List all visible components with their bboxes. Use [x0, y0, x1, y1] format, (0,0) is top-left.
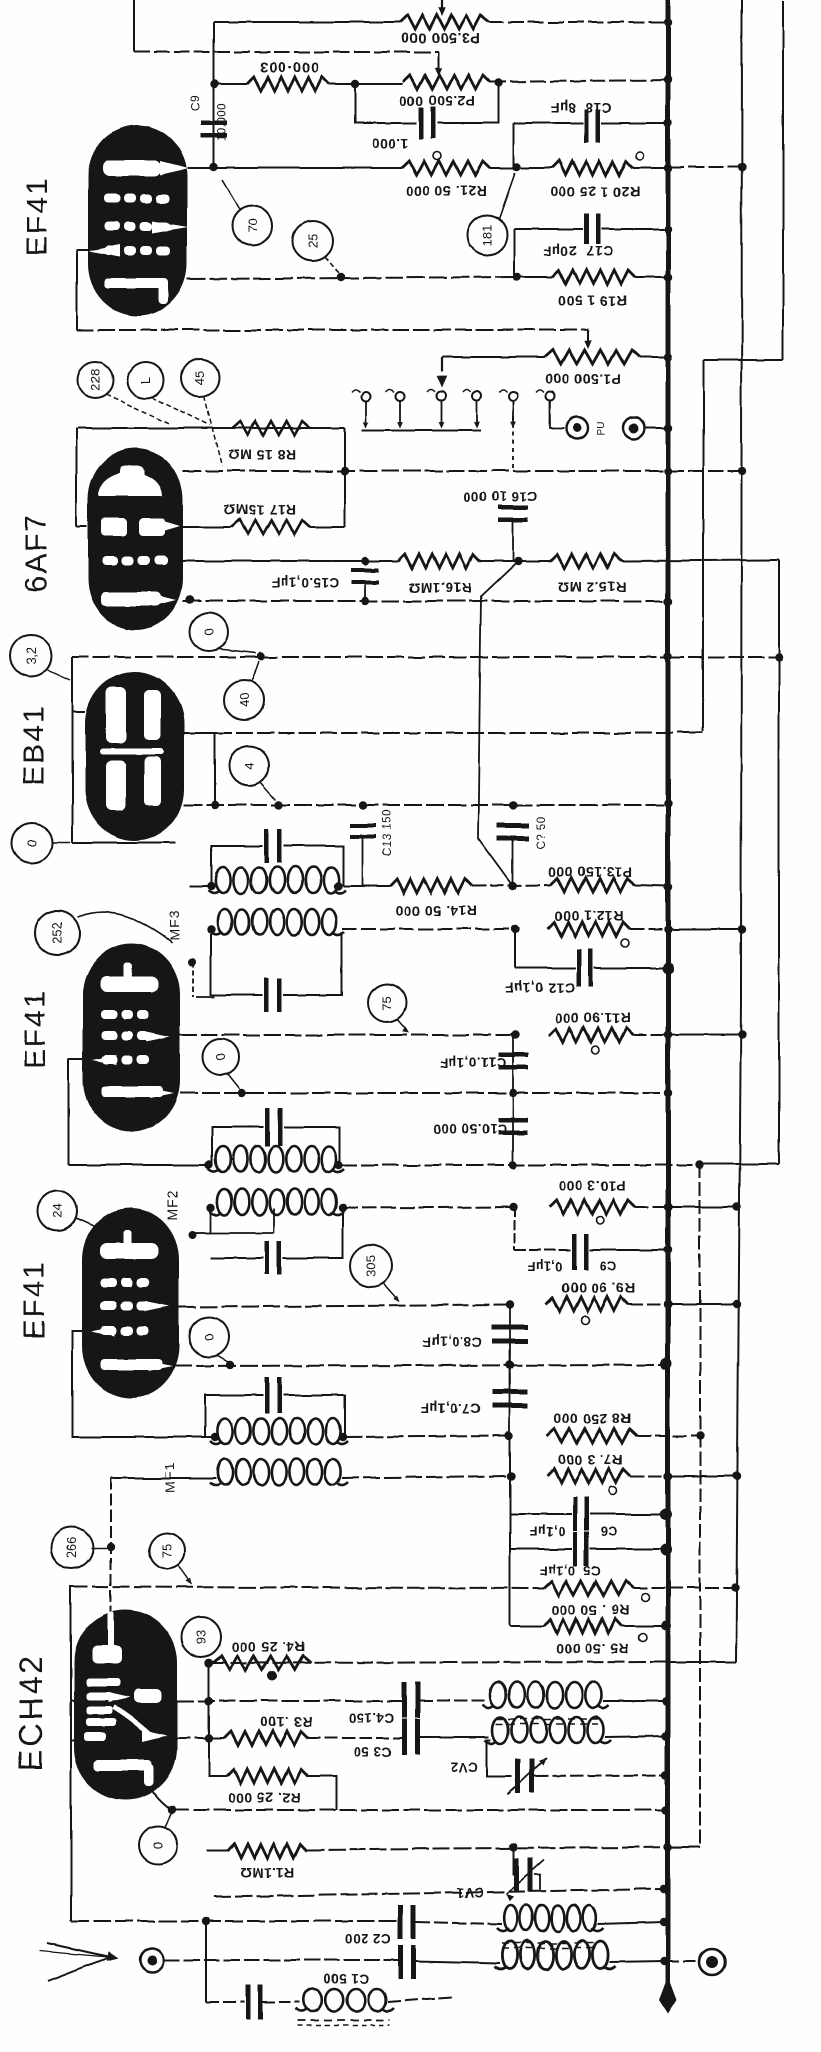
vacuum tube V4 EF41 envelope — [83, 943, 180, 1132]
leader 0a — [218, 649, 256, 653]
wire trap tail — [388, 1997, 452, 2002]
resistor R1 1M — [227, 1844, 307, 1858]
resistor R3 100 — [224, 1731, 308, 1745]
wire V5 g3 left drop — [72, 1331, 215, 1437]
callout circle 25 — [293, 221, 333, 261]
tube V6 cathode — [94, 1760, 152, 1771]
node bus y357 — [664, 353, 672, 361]
svg-text:0,1µF: 0,1µF — [529, 1524, 565, 1539]
wire V1 cathode line y277 — [187, 277, 517, 279]
callout circle 0a — [190, 613, 228, 651]
svg-text:C18 8µF: C18 8µF — [550, 100, 612, 116]
svg-text:CV2: CV2 — [450, 1759, 478, 1774]
svg-text:C5 0,1µF: C5 0,1µF — [539, 1563, 600, 1578]
wire rail x699 vertical — [699, 1164, 701, 1847]
svg-text:R6 . 50 000: R6 . 50 000 — [551, 1602, 629, 1618]
wire R8b to rail — [637, 1435, 700, 1437]
node x365 y561 — [361, 557, 369, 565]
node bus y1736 — [662, 1732, 670, 1740]
svg-text:EF41: EF41 — [21, 176, 54, 256]
leader 0d — [216, 1355, 228, 1362]
wire C18 bracket — [513, 123, 515, 167]
tube V2 target disc — [98, 472, 162, 496]
svg-text:R9. 90 000: R9. 90 000 — [561, 1280, 635, 1296]
leader 252 — [77, 912, 172, 943]
tube V1 cathode — [104, 278, 166, 288]
wire C3 to coil — [420, 1736, 489, 1738]
svg-text:305: 305 — [364, 1255, 379, 1277]
node x513 y1165 — [509, 1161, 517, 1169]
svg-text:R19 1 500: R19 1 500 — [557, 293, 626, 309]
wire R14-R13 — [472, 885, 550, 886]
callout circle 0d — [189, 1317, 229, 1357]
wire C0 to coil — [263, 2001, 300, 2003]
node x517 y167 — [513, 163, 521, 171]
potentiometer P3 500000 — [400, 15, 488, 29]
node x742 y167 — [738, 163, 746, 171]
node x513 y886 — [509, 882, 517, 890]
svg-text:266: 266 — [65, 1537, 80, 1559]
tube V6 grid top box — [92, 1645, 122, 1663]
node x365 y601 — [361, 597, 369, 605]
coil ANT primary — [504, 1905, 517, 1931]
svg-text:25: 25 — [306, 234, 321, 248]
wire y1207 to rail — [668, 1206, 737, 1208]
wire R19 stubs — [517, 276, 552, 278]
leader 70 — [222, 180, 240, 210]
svg-text:0: 0 — [25, 839, 40, 846]
svg-text:R1.1MΩ: R1.1MΩ — [239, 1865, 294, 1881]
wire grid drop V4 — [192, 963, 194, 997]
transformer MF1 primary box — [205, 1395, 263, 1437]
svg-text:C8.0,1µF: C8.0,1µF — [422, 1334, 481, 1349]
callout circle 0c — [203, 1039, 239, 1075]
resistor R22 300000 — [247, 77, 329, 91]
capacitor C14 50 — [497, 823, 529, 828]
callout circle 70 — [232, 206, 272, 246]
callout circle 41 — [128, 362, 164, 398]
wire detector drop — [478, 561, 518, 883]
callout circle 0b — [12, 823, 52, 863]
coil OSC primary — [490, 1682, 506, 1708]
wire C1 to coil — [416, 1961, 500, 1963]
wire RC rail x511 — [509, 1436, 511, 1626]
node bus y229 — [664, 225, 672, 233]
svg-text:R17 15MΩ: R17 15MΩ — [224, 502, 296, 518]
node bus y1810 — [662, 1806, 670, 1814]
wire osc grid drop x111 — [110, 1478, 112, 1648]
wire line y1922 — [71, 1920, 398, 1922]
svg-text:C15.0,1µF: C15.0,1µF — [271, 575, 338, 590]
capacitor MF1 primary tune — [265, 1377, 270, 1413]
wire ant sec to bus — [609, 1961, 664, 1962]
wire CV2 arrow — [508, 1758, 546, 1794]
wire C17 bracket — [513, 229, 515, 277]
node x209 y1701 — [205, 1697, 213, 1705]
tube V1 grid dashes row1 — [104, 194, 120, 203]
svg-text:C17 20µF: C17 20µF — [543, 243, 613, 259]
resistor R4 25000 — [213, 1656, 311, 1670]
leader 41 — [152, 397, 210, 425]
wire MF3 pri right — [343, 885, 390, 887]
resistor R9 90000 — [546, 1297, 628, 1311]
wire R16-R15 — [480, 560, 550, 562]
wire V5 anode line y1306 — [179, 1305, 510, 1307]
resistor R2 25000 — [227, 1769, 308, 1783]
svg-text:C4.150: C4.150 — [348, 1710, 394, 1725]
node x518 y561 — [514, 557, 522, 565]
wire main HT bus vertical — [666, 0, 671, 1998]
svg-text:EF41: EF41 — [19, 989, 52, 1069]
resistor R10 3000 — [549, 1200, 635, 1214]
node bus y1250 — [664, 1246, 672, 1254]
node x513 y805 — [509, 801, 517, 809]
jack earth — [699, 1949, 725, 1975]
potentiometer P2 500000 — [403, 75, 490, 89]
wire trap core — [298, 2019, 390, 2021]
node x515 y1035 — [511, 1031, 519, 1039]
svg-text:R16.1MΩ: R16.1MΩ — [408, 580, 472, 596]
coil MF3 secondary — [217, 909, 232, 935]
svg-text:R14. 50 000: R14. 50 000 — [395, 903, 477, 919]
svg-text:MF2: MF2 — [164, 1190, 180, 1221]
wire line y330 dashed — [77, 329, 588, 331]
svg-text:C? 50: C? 50 — [536, 816, 548, 849]
svg-text:0: 0 — [214, 1053, 229, 1060]
leader 0e — [165, 1814, 171, 1827]
resistor R17 15M — [232, 520, 310, 534]
resistor R12 1000 — [548, 922, 630, 936]
wire bus to output jack — [668, 1960, 699, 1962]
node bus y1093 — [664, 1089, 672, 1097]
capacitor C1 500 — [398, 1945, 403, 1979]
resistor R5 50000 — [544, 1619, 621, 1633]
svg-text:C9: C9 — [599, 1259, 616, 1274]
capacitor MF2 primary tune — [266, 1108, 271, 1146]
wire y929 to rail — [668, 928, 742, 930]
wire V1 g3 left drop — [77, 250, 90, 330]
node x343 y1208 — [339, 1204, 347, 1212]
resistor R13 150000 — [550, 878, 635, 892]
wire MF1 sec left link — [111, 1477, 216, 1479]
wire R22-P2 link — [329, 83, 403, 85]
callout circle 24 — [37, 1191, 77, 1231]
node x279 y805 — [275, 801, 283, 809]
node x510 y1305 — [506, 1301, 514, 1309]
resistor R21 50000 — [402, 161, 490, 175]
tube V5 dashes row1 — [101, 1278, 117, 1287]
wire R22 left stub — [215, 83, 247, 85]
capacitor C4 150 — [402, 1682, 407, 1718]
wire line y1847 — [207, 1850, 227, 1852]
wire jog y360 — [703, 359, 783, 361]
node bus y1847 — [664, 1843, 672, 1851]
wire P1 right — [640, 356, 668, 358]
node bus y428 — [664, 424, 672, 432]
capacitor C11 0.1uF — [512, 1035, 514, 1093]
tube V3 diode plate 2a — [106, 760, 126, 810]
tube V6 anode slot — [134, 1689, 162, 1703]
wire right rail x783 vertical — [782, 0, 784, 360]
svg-text:93: 93 — [194, 1630, 209, 1644]
node x511 y1476 — [507, 1472, 515, 1480]
tube V3 diode plate 2b — [144, 756, 161, 806]
wire R13 to bus — [635, 885, 668, 886]
wire V4 anode line y1035 — [180, 1034, 515, 1036]
svg-text:R15.2 MΩ: R15.2 MΩ — [558, 579, 626, 595]
node x343 y1437 — [339, 1433, 347, 1441]
svg-text:C16 10 000: C16 10 000 — [463, 489, 537, 504]
svg-text:228: 228 — [88, 369, 103, 391]
node x513 y1207 — [509, 1203, 517, 1211]
callout circle 0e — [139, 1826, 177, 1864]
node bus y1207 — [664, 1203, 672, 1211]
svg-text:P1.500 000: P1.500 000 — [545, 371, 622, 387]
svg-text:P13.150 000: P13.150 000 — [548, 864, 633, 880]
coil MF2 secondary — [217, 1189, 232, 1215]
resistor R14 50000 — [390, 879, 472, 893]
coil MF1 primary — [217, 1418, 232, 1444]
capacitor MF2 sec tune — [265, 1241, 270, 1275]
wire V2 grid line y471 — [183, 470, 668, 472]
wire line y1165 left — [69, 1164, 209, 1166]
tube V1 anode slot — [103, 160, 161, 176]
callout circle 93 — [181, 1617, 221, 1657]
wire R7 to bus — [630, 1475, 668, 1477]
svg-text:C3 50: C3 50 — [353, 1744, 391, 1759]
tube V4 anode slot — [100, 976, 158, 992]
label small o R21 — [433, 152, 441, 160]
node bus y168 — [664, 164, 672, 172]
svg-text:R12.1 000: R12.1 000 — [554, 908, 623, 924]
wire R12 bracket — [514, 929, 516, 968]
node bus y1476 — [664, 1472, 672, 1480]
node x513 y1847 — [509, 1843, 517, 1851]
node x742 y929 — [738, 925, 746, 933]
svg-text:C1 500: C1 500 — [323, 1971, 369, 1986]
wire top-left drop x134 — [133, 0, 135, 52]
wire P3 wiper up — [441, 0, 443, 13]
node x355 y84 — [351, 80, 359, 88]
wire ECH42 box left — [70, 1586, 72, 1921]
vacuum tube V5 EF41 envelope — [82, 1208, 179, 1398]
node bus y1304 — [664, 1300, 672, 1308]
vacuum tube V2 6AF7 envelope — [88, 448, 183, 630]
node x735 y1588 — [731, 1584, 739, 1592]
node x215 y84 — [211, 80, 219, 88]
wire C2 to coil — [416, 1922, 502, 1924]
leader 25 — [325, 257, 339, 273]
capacitor C10 50000 — [512, 1093, 514, 1165]
svg-text:181: 181 — [480, 224, 495, 246]
leader 228 — [106, 394, 170, 424]
wire MF2 grid line y1208 — [343, 1207, 513, 1208]
node bus y80 — [664, 76, 672, 84]
svg-text:000·003: 000·003 — [259, 58, 320, 74]
wire grid box right x345 — [344, 428, 346, 527]
resistor R16 1M — [398, 554, 480, 568]
tube V2 cathode — [101, 592, 161, 606]
wire R2 to y1810 — [308, 1776, 337, 1810]
node x513 y1093 — [509, 1089, 517, 1097]
tube V4 dashes row1 — [101, 1010, 117, 1019]
node x700 y1165 — [696, 1161, 704, 1169]
wire osc core — [496, 1718, 598, 1720]
tube V6 diag — [113, 1707, 150, 1735]
wire V3 lead y733 — [184, 732, 215, 734]
svg-text:R2. 25 000: R2. 25 000 — [227, 1790, 301, 1806]
wire MF2 sec box right — [283, 1208, 343, 1258]
resistor R15 2M — [550, 554, 622, 568]
callout circle 252 — [35, 911, 79, 955]
svg-text:R7. 3 000: R7. 3 000 — [557, 1452, 622, 1468]
tube V1 grid dashes row3 — [104, 246, 120, 255]
node x339 y1165 — [335, 1161, 343, 1169]
label small o R20 — [636, 152, 644, 160]
svg-text:75: 75 — [160, 1544, 175, 1558]
wire line y1165 right — [340, 1164, 700, 1166]
antenna symbol — [48, 1943, 110, 1957]
vacuum tube V1 EF41 envelope — [88, 125, 187, 316]
leader 40 — [252, 661, 259, 681]
wire bus bottom arrow — [659, 1976, 677, 2014]
tube V3 diode plate 1a — [106, 687, 126, 743]
callout circle 4 — [229, 746, 269, 786]
callout circle 228 — [77, 362, 113, 398]
svg-text:C2 200: C2 200 — [345, 1931, 391, 1946]
wire line y2002 — [206, 2001, 244, 2003]
wire V6 cathode to y1810 — [152, 1790, 172, 1810]
node x172 y1810 — [168, 1806, 176, 1814]
svg-text:ECH42: ECH42 — [13, 1653, 49, 1771]
wire R21-R20 link — [490, 167, 517, 169]
capacitor C8 0.1uF — [509, 1305, 511, 1365]
node x211 y928 — [207, 926, 215, 934]
node bus y1961 — [660, 1957, 668, 1965]
svg-text:C12 0,1µF: C12 0,1µF — [505, 980, 575, 996]
wire line y52 — [134, 51, 438, 53]
tube V5 cathode — [101, 1359, 163, 1370]
svg-text:R21. 50 000: R21. 50 000 — [405, 183, 487, 199]
resistor R8b 250000 — [547, 1429, 637, 1443]
svg-text:C10.50 000: C10.50 000 — [433, 1121, 507, 1136]
wire CV1 to coil — [534, 1875, 540, 1890]
tube V4 dashes row3 — [101, 1055, 117, 1064]
callout circle 181 — [467, 215, 507, 255]
jack PU right — [623, 417, 645, 439]
capacitor C9 on grid drop — [213, 84, 215, 167]
wire line y1588 — [71, 1587, 544, 1588]
capacitor C7 0.1uF — [509, 1365, 511, 1437]
leader 181 — [499, 173, 515, 219]
node x338 y886 — [334, 882, 342, 890]
wire MF2 sec tap — [195, 1232, 211, 1234]
svg-text:R4. 25 000: R4. 25 000 — [231, 1639, 305, 1655]
capacitor C3 50 — [402, 1719, 407, 1755]
wire rail x703 vertical — [702, 360, 704, 731]
node x700 y1436 — [696, 1432, 704, 1440]
wire EB41 bottom y843 — [72, 842, 176, 844]
wire y471 to rail — [668, 470, 742, 472]
tube V2 grid slot — [101, 518, 127, 536]
node x509 y1436 — [505, 1432, 513, 1440]
node bus y1775 — [662, 1771, 670, 1779]
node bus y1365 big — [660, 1358, 672, 1370]
tube V4 dashes row2 — [101, 1031, 117, 1040]
svg-text:75: 75 — [380, 996, 395, 1010]
wire ant pri to bus — [597, 1922, 664, 1924]
svg-text:70: 70 — [245, 219, 260, 233]
resistor R7 3000 — [547, 1469, 630, 1483]
svg-text:0: 0 — [151, 1841, 166, 1848]
wire line y22 right dashed — [488, 21, 668, 23]
node x215 y805 — [211, 801, 219, 809]
wire V2 line y561 — [183, 560, 398, 562]
node x261 y656 — [257, 652, 265, 660]
svg-text:EF41: EF41 — [18, 1260, 51, 1340]
capacitor C0 — [245, 1985, 250, 2019]
wire osc sec to bus — [605, 1736, 668, 1737]
svg-text:C6: C6 — [600, 1524, 617, 1539]
wire y1476 to rail — [668, 1475, 737, 1477]
node x515 y929 — [511, 925, 519, 933]
capacitor C12 0.1uF — [515, 967, 576, 969]
node x779 y657 — [775, 653, 783, 661]
capacitor MF3 sec tune — [265, 978, 270, 1012]
callout circle 3.2 — [10, 635, 52, 677]
node x742 y1035 — [738, 1031, 746, 1039]
wire wave-switch feed drop — [441, 357, 443, 372]
jack antenna — [140, 1948, 164, 1972]
node bus y471 — [664, 467, 672, 475]
leader 3.2 — [48, 670, 70, 680]
coil MF3 primary — [215, 867, 230, 893]
node bus y601 — [664, 597, 672, 605]
wire R20 stub — [517, 167, 552, 169]
wire R10 to bus — [635, 1206, 668, 1208]
node x209 y1165 — [205, 1161, 213, 1169]
tube V1 grid dashes row2 — [104, 222, 120, 231]
coil MF2 primary — [216, 1146, 231, 1172]
capacitor C16 10000 — [498, 506, 528, 511]
jack PU left — [566, 417, 588, 439]
wire R17 line — [182, 526, 232, 528]
node bus y277 — [664, 273, 672, 281]
wire jack to bus — [645, 427, 668, 429]
wire R9 to bus — [628, 1303, 668, 1305]
wire V2 cathode line y601 — [183, 600, 668, 602]
resistor R11 90000 — [548, 1028, 633, 1042]
tube V6 dashes r1 — [86, 1678, 120, 1686]
wire ant jack line y1960 — [164, 1959, 398, 1961]
wire y657 to rail — [668, 656, 779, 658]
node bus y929 — [664, 925, 672, 933]
svg-text:3,2: 3,2 — [24, 647, 39, 665]
node bus y1549 big — [660, 1544, 672, 1556]
node x206 y1921 — [202, 1917, 210, 1925]
wire rail x779 vertical — [778, 560, 780, 1164]
node bus y1701 — [662, 1697, 670, 1705]
callout circle 40 — [224, 680, 264, 720]
wire R1 right y1847 — [307, 1847, 698, 1850]
wire R6 to rail — [633, 1587, 735, 1589]
node x499 y83 — [495, 79, 503, 87]
node x242 y1093 — [238, 1089, 246, 1097]
leader 45 — [204, 396, 222, 466]
wire V4 cathode line y1093 — [180, 1092, 668, 1094]
wire y1662 to rail — [668, 1661, 736, 1663]
svg-text:0: 0 — [202, 1333, 217, 1340]
